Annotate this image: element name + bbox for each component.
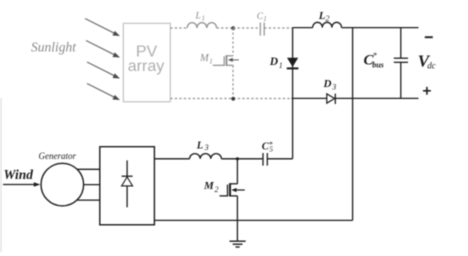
mosfet M1 (213, 28, 239, 99)
svg-text:L: L (195, 11, 201, 21)
scan edge artifact (0, 98, 2, 252)
bus vertical wire (352, 28, 354, 221)
svg-text:1: 1 (202, 14, 206, 22)
inductor L2 (313, 22, 342, 27)
svg-text:5: 5 (269, 145, 273, 154)
stator lead 2 (84, 184, 100, 186)
wire PV- rail (dashed) (170, 98, 291, 100)
mosfet M2 (220, 159, 245, 241)
sunlight arrow 2 (86, 41, 120, 58)
svg-text:dc: dc (427, 61, 436, 71)
svg-text:2: 2 (326, 14, 330, 23)
sunlight arrow 1 (85, 19, 120, 37)
svg-text:L: L (318, 10, 326, 22)
svg-text:1: 1 (263, 15, 267, 23)
minus terminal (425, 36, 433, 38)
svg-text:Sunlight: Sunlight (31, 40, 77, 55)
rectifier box (100, 147, 155, 225)
svg-text:M: M (203, 180, 215, 192)
sunlight arrow 3 (87, 62, 120, 79)
svg-text:Wind: Wind (4, 167, 34, 182)
PV array box (123, 23, 170, 102)
inductor L3 (190, 154, 222, 159)
wire C5 to D1 node (267, 158, 292, 160)
right bottom rail (353, 97, 419, 99)
svg-text:3: 3 (331, 83, 336, 92)
plus terminal (423, 90, 431, 92)
rectifier diode (126, 160, 128, 207)
wire PV+ to L1 (dashed) (170, 27, 187, 29)
wire L3 to node C (221, 158, 263, 160)
rectifier top output wire (154, 158, 189, 160)
node C junction dot (236, 157, 239, 160)
capacitor Cbus (400, 28, 402, 59)
wire C1 to D1 node (dashed) (264, 27, 292, 29)
inductor L1 (187, 23, 216, 28)
node B junction dot (231, 97, 235, 101)
stator lead 3 (77, 199, 100, 201)
svg-text:3: 3 (204, 143, 209, 152)
D3 anode wire (292, 97, 327, 99)
top rail left segment (293, 27, 313, 29)
sunlight arrow 4 (87, 84, 120, 101)
generator circle (41, 163, 84, 206)
diode D3 (327, 94, 335, 103)
top rail right segment (342, 27, 419, 29)
svg-text:L: L (196, 141, 203, 152)
node A junction dot (231, 26, 235, 30)
svg-text:D: D (323, 78, 332, 90)
bottom rail (154, 219, 352, 221)
D3 cathode wire (335, 97, 352, 99)
svg-text:Generator: Generator (39, 151, 77, 161)
D1 branch vertical wire (292, 28, 294, 159)
capacitor C5 (262, 153, 264, 166)
svg-text:2: 2 (215, 185, 219, 194)
svg-text:bus: bus (372, 60, 384, 69)
diode D1 (287, 58, 298, 67)
svg-text:D: D (269, 56, 279, 68)
ground (230, 241, 246, 247)
stator lead 1 (77, 168, 100, 170)
svg-text:1: 1 (279, 61, 283, 70)
svg-text:*: * (373, 50, 378, 60)
capacitor C1 (259, 23, 261, 36)
wire L1 to node A (dashed) (217, 27, 233, 29)
wire node A to C1 (dashed) (233, 27, 260, 29)
wind arrow (3, 184, 36, 186)
svg-text:array: array (128, 58, 164, 75)
svg-text:1: 1 (209, 57, 213, 65)
